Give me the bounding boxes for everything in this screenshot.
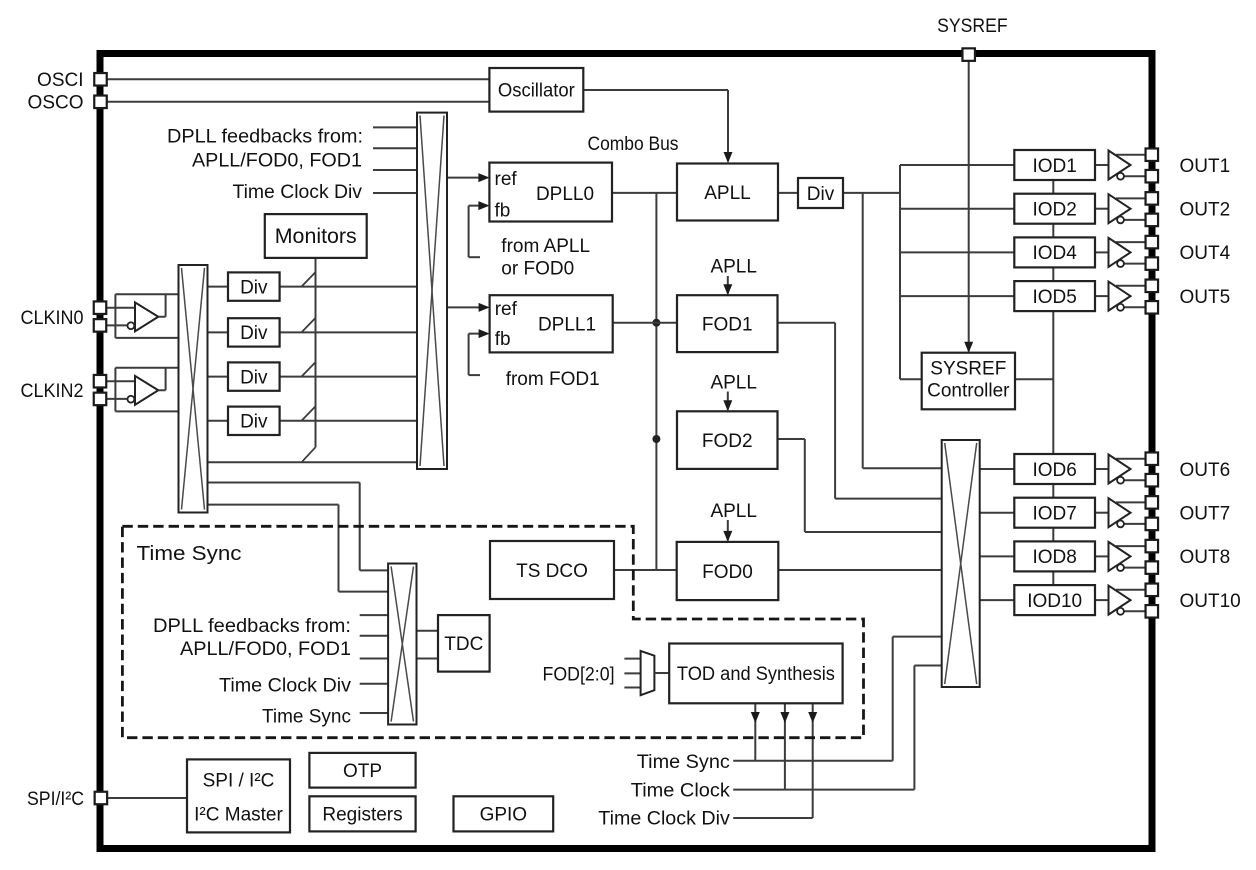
svg-text:IOD1: IOD1: [1032, 156, 1076, 177]
svg-text:SPI/I²C: SPI/I²C: [27, 789, 84, 810]
svg-text:from APLL: from APLL: [501, 236, 590, 257]
svg-text:IOD10: IOD10: [1027, 591, 1082, 612]
svg-text:TDC: TDC: [444, 634, 483, 655]
svg-text:OUT8: OUT8: [1180, 547, 1231, 568]
svg-text:I²C Master: I²C Master: [194, 805, 283, 826]
svg-text:Registers: Registers: [322, 805, 402, 826]
svg-text:Div: Div: [240, 412, 268, 433]
svg-text:APLL: APLL: [710, 257, 756, 278]
svg-text:DPLL1: DPLL1: [538, 315, 596, 336]
svg-text:Controller: Controller: [927, 381, 1010, 402]
svg-text:APLL: APLL: [704, 183, 750, 204]
svg-text:CLKIN2: CLKIN2: [21, 381, 84, 402]
svg-text:Time Sync: Time Sync: [262, 706, 351, 727]
svg-text:OUT6: OUT6: [1180, 460, 1231, 481]
svg-text:Oscillator: Oscillator: [498, 81, 576, 102]
svg-text:APLL/FOD0, FOD1: APLL/FOD0, FOD1: [192, 151, 362, 172]
svg-text:IOD2: IOD2: [1032, 200, 1076, 221]
svg-text:Time Clock: Time Clock: [631, 781, 731, 802]
svg-text:APLL: APLL: [710, 373, 756, 394]
svg-text:Div: Div: [240, 367, 268, 388]
svg-text:IOD6: IOD6: [1032, 460, 1076, 481]
svg-text:from FOD1: from FOD1: [506, 369, 600, 390]
svg-text:Time Sync: Time Sync: [637, 752, 730, 773]
svg-text:IOD8: IOD8: [1032, 547, 1076, 568]
svg-text:ref: ref: [495, 169, 518, 190]
svg-text:OUT10: OUT10: [1180, 591, 1241, 612]
svg-text:APLL/FOD0, FOD1: APLL/FOD0, FOD1: [180, 639, 351, 660]
svg-text:OUT7: OUT7: [1180, 504, 1231, 525]
svg-text:Time Clock Div: Time Clock Div: [233, 182, 363, 203]
svg-text:OUT4: OUT4: [1180, 243, 1231, 264]
svg-text:IOD4: IOD4: [1032, 243, 1077, 264]
svg-text:OUT5: OUT5: [1180, 287, 1231, 308]
svg-text:Time Clock Div: Time Clock Div: [219, 676, 352, 697]
svg-text:or FOD0: or FOD0: [501, 259, 574, 280]
svg-text:Combo Bus: Combo Bus: [588, 134, 679, 155]
svg-text:FOD0: FOD0: [702, 562, 753, 583]
svg-text:FOD1: FOD1: [702, 314, 753, 335]
svg-text:OSCO: OSCO: [28, 93, 84, 114]
svg-text:DPLL feedbacks from:: DPLL feedbacks from:: [153, 616, 351, 637]
svg-text:IOD5: IOD5: [1032, 287, 1076, 308]
svg-text:APLL: APLL: [710, 501, 756, 522]
svg-text:ref: ref: [495, 299, 518, 320]
svg-text:SYSREF: SYSREF: [930, 359, 1006, 380]
svg-text:TOD and Synthesis: TOD and Synthesis: [677, 664, 835, 685]
svg-text:CLKIN0: CLKIN0: [21, 308, 84, 329]
svg-text:FOD2: FOD2: [702, 431, 753, 452]
svg-text:fb: fb: [495, 201, 511, 222]
svg-text:DPLL0: DPLL0: [536, 184, 594, 205]
svg-text:DPLL feedbacks from:: DPLL feedbacks from:: [167, 127, 363, 148]
svg-text:TS DCO: TS DCO: [516, 561, 588, 582]
svg-text:OUT2: OUT2: [1180, 200, 1231, 221]
svg-text:SPI / I²C: SPI / I²C: [203, 771, 275, 792]
svg-text:Time Sync: Time Sync: [137, 543, 242, 565]
svg-text:Time Clock Div: Time Clock Div: [598, 809, 730, 830]
svg-text:Div: Div: [807, 184, 835, 205]
svg-text:OUT1: OUT1: [1180, 156, 1231, 177]
svg-text:Div: Div: [240, 323, 268, 344]
svg-text:SYSREF: SYSREF: [937, 16, 1008, 37]
svg-text:Monitors: Monitors: [275, 225, 357, 248]
svg-text:fb: fb: [495, 329, 511, 350]
svg-text:FOD[2:0]: FOD[2:0]: [543, 665, 615, 686]
svg-text:OSCI: OSCI: [37, 70, 83, 91]
svg-text:IOD7: IOD7: [1032, 504, 1076, 525]
svg-text:GPIO: GPIO: [480, 805, 528, 826]
svg-text:Div: Div: [240, 277, 268, 298]
svg-text:OTP: OTP: [343, 761, 382, 782]
